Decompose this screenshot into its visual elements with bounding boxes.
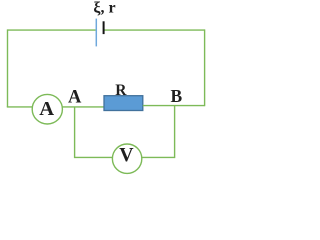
wire top-right horizontal (battery right lead) [104,29,204,31]
svg-text:V: V [119,144,134,166]
node A label [68,87,82,107]
svg-text:ξ, r: ξ, r [93,0,115,17]
wire voltmeter branch bottom-right horizontal [142,156,175,158]
wire bottom-left horizontal (to ammeter) [7,106,33,108]
wire top-left horizontal (battery left lead) [8,29,96,31]
voltmeter U2 label "V" [119,144,134,166]
battery E1 long plate (positive) [95,19,97,47]
battery value label "ξ, r" [93,0,115,17]
ammeter U1 label "A" [39,98,54,120]
svg-text:A: A [68,87,82,107]
resistor R body [104,96,143,111]
wire node B junction down to voltmeter branch [174,106,176,159]
resistor label "R" [115,82,127,99]
voltmeter U2 body [112,144,141,173]
battery E1 short plate (negative) [103,21,105,34]
wire resistor to node B [143,105,205,107]
ammeter U1 body [32,94,62,124]
node B label [171,86,183,106]
svg-text:R: R [115,82,127,99]
svg-text:A: A [39,98,54,120]
wire node A junction down to voltmeter branch [74,107,76,158]
wire voltmeter branch bottom-left horizontal [75,156,113,158]
wire right vertical [204,29,206,106]
wire left vertical [7,29,9,107]
svg-text:B: B [171,86,183,106]
wire ammeter to resistor [62,106,104,108]
